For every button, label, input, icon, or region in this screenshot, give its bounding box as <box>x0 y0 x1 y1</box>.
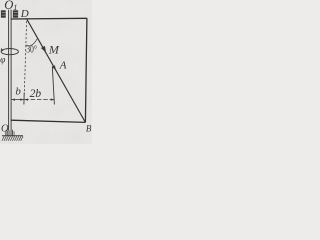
upper bearing right block <box>13 10 18 17</box>
lower bearing sleeve lines <box>5 130 14 136</box>
label O1 <box>4 0 17 12</box>
b right arrowhead <box>20 99 24 101</box>
frame right bar <box>85 18 87 122</box>
rotation arrowhead <box>1 48 4 52</box>
2b left arrowhead <box>25 99 29 101</box>
ground hatching <box>2 136 23 141</box>
rotation arrow ellipse around rod <box>1 49 18 55</box>
rotation axis rod O1-O (double line) <box>9 10 12 136</box>
b left arrowhead <box>12 99 16 101</box>
arrowhead on channel at A <box>52 65 56 70</box>
extension line below A <box>52 66 54 104</box>
dimension line b <box>12 99 24 101</box>
2b right arrowhead <box>51 99 55 101</box>
ground line <box>2 135 23 137</box>
paper grain overlay <box>0 0 92 144</box>
dashed extension line below D <box>24 21 26 94</box>
arrowhead on channel at M <box>41 46 46 53</box>
dimension tick below D <box>23 93 25 105</box>
channel DB diagonal <box>27 19 86 122</box>
frame bottom bar <box>11 120 86 122</box>
30 degree angle arc <box>26 39 37 46</box>
upper bearing left block <box>1 10 6 17</box>
dimension line 2b (dashed) <box>24 99 54 101</box>
frame top bar <box>11 17 87 20</box>
paper background <box>0 0 92 144</box>
paper blotch overlay <box>0 0 92 144</box>
